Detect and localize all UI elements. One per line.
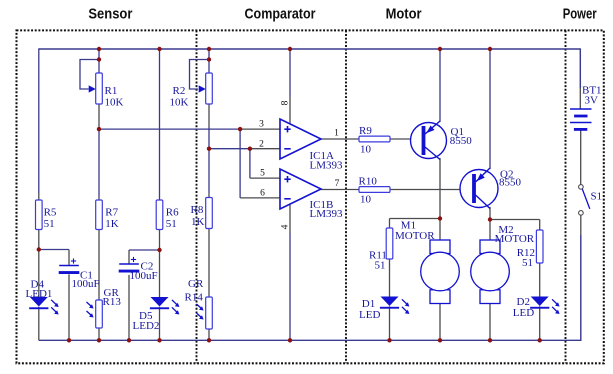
wire pin 7 output to R10 xyxy=(321,189,359,191)
op-amp IC1B LM393 xyxy=(280,169,321,209)
wire node to C1 xyxy=(39,249,69,251)
svg-text:R5: R5 xyxy=(44,207,57,219)
svg-text:R7: R7 xyxy=(105,207,118,219)
junction ground / M1 xyxy=(438,338,442,342)
wire node to D4 xyxy=(38,250,40,298)
svg-text:3V: 3V xyxy=(585,95,599,107)
wire R7 to R13 xyxy=(98,230,100,301)
LED D4 xyxy=(29,297,59,315)
svg-text:LED: LED xyxy=(513,307,534,319)
wire pin 2 stub xyxy=(250,148,280,150)
junction R1 wiper xyxy=(97,57,101,61)
wire C1 to ground rail xyxy=(68,274,70,340)
wire rail to R6 xyxy=(159,48,161,200)
resistor R9 10 xyxy=(359,136,390,142)
wire rail to R2 xyxy=(208,48,210,73)
wire pin 4 stub xyxy=(289,204,291,233)
svg-text:LED1: LED1 xyxy=(26,288,53,300)
capacitor C1 100uF xyxy=(59,258,80,274)
svg-text:R10: R10 xyxy=(359,176,378,188)
svg-text:1K: 1K xyxy=(105,218,119,230)
capacitor C2 100uF xyxy=(119,257,140,273)
LED D2 xyxy=(530,297,560,315)
op-amp IC1A LM393 xyxy=(280,119,321,159)
wire battery to switch xyxy=(580,131,582,185)
svg-text:3: 3 xyxy=(259,120,264,130)
wire D2 to ground rail xyxy=(539,306,541,340)
wire rail to Q1 emitter xyxy=(439,48,441,122)
svg-text:8550: 8550 xyxy=(450,135,473,147)
wire R10 to Q2 base xyxy=(390,189,472,191)
potentiometer R1 10K xyxy=(96,73,103,104)
wire rail to battery xyxy=(579,48,581,88)
wire node to C2 xyxy=(129,249,160,251)
svg-text:LM393: LM393 xyxy=(310,208,344,220)
wire M2 to ground rail xyxy=(489,304,491,341)
svg-text:GR: GR xyxy=(188,278,204,290)
junction ground / C1 xyxy=(67,338,71,342)
wire bottom ground rail xyxy=(39,339,581,341)
junction ground / D2 xyxy=(538,338,542,342)
wire C2 to ground rail xyxy=(128,275,130,340)
wire R2 wiper loop xyxy=(190,60,210,90)
svg-text:LED: LED xyxy=(359,309,380,321)
resistor R7 1K xyxy=(96,200,103,230)
junction ground / R14 xyxy=(207,338,211,342)
wire pin 4 to ground rail xyxy=(289,233,291,340)
resistor R8 1K xyxy=(206,198,213,229)
svg-text:LM393: LM393 xyxy=(310,159,344,171)
svg-text:8: 8 xyxy=(281,100,291,105)
junction R2 wiper xyxy=(207,57,211,61)
motor M2 xyxy=(471,240,510,304)
R2 wiper arrow xyxy=(199,85,206,92)
junction ground / pin4 xyxy=(288,338,292,342)
resistor R5 51 xyxy=(36,200,43,230)
svg-text:10: 10 xyxy=(360,193,372,205)
battery BT1 3V xyxy=(570,109,592,131)
junction R6/C2/D5 node xyxy=(157,248,161,252)
svg-text:51: 51 xyxy=(44,218,55,230)
wire R1 wiper loop xyxy=(80,60,99,90)
svg-text:Comparator: Comparator xyxy=(245,6,316,23)
svg-text:100uF: 100uF xyxy=(130,270,158,282)
resistor R11 51 xyxy=(386,228,393,259)
wire C2 top lead xyxy=(128,250,130,264)
wire Q2 collector node to R12 xyxy=(490,219,540,221)
resistor R12 51 xyxy=(536,230,543,263)
svg-text:1K: 1K xyxy=(191,216,205,228)
R14 light arrows xyxy=(197,304,204,320)
svg-text:Sensor: Sensor xyxy=(88,6,132,23)
wire R6 to node xyxy=(159,230,161,251)
junction ground / D5 xyxy=(157,338,161,342)
svg-text:R8: R8 xyxy=(191,204,204,216)
LED D5 xyxy=(150,297,180,315)
svg-text:6: 6 xyxy=(260,189,265,199)
svg-text:10: 10 xyxy=(360,143,372,155)
junction ground / R13 xyxy=(97,338,101,342)
svg-text:R1: R1 xyxy=(105,85,118,97)
wire Q2 collector down xyxy=(489,207,491,220)
wire pin 5 stub xyxy=(250,177,280,179)
junction top rail / R1 xyxy=(97,47,101,51)
svg-text:100uF: 100uF xyxy=(72,278,100,290)
wire R7 top lead xyxy=(98,196,100,200)
wire R5 to node xyxy=(38,230,40,250)
wire R13 to ground rail xyxy=(98,328,100,340)
wire node to D5 xyxy=(159,250,161,297)
photoresistor R14 GR xyxy=(206,297,213,329)
transistor Q1 8550 xyxy=(411,121,447,160)
wire rail to Q2 emitter xyxy=(489,48,491,169)
wire battery top lead xyxy=(579,88,581,109)
resistor R6 51 xyxy=(156,200,163,230)
wire bottom rail to switch xyxy=(580,235,582,341)
wire pin2 node down to pin5 xyxy=(249,149,251,178)
wire D1 to ground rail xyxy=(389,306,391,340)
wire node to M1 xyxy=(439,219,441,241)
junction ground / C2 xyxy=(127,338,131,342)
svg-text:S1: S1 xyxy=(591,190,603,202)
svg-text:R13: R13 xyxy=(103,296,122,308)
wire R1 bottom lead xyxy=(98,104,100,129)
R13 light arrows xyxy=(87,302,94,318)
R1 wiper arrow xyxy=(89,85,96,92)
wire pin 3 stub xyxy=(240,128,280,130)
junction top rail / R6 xyxy=(157,47,161,51)
wire R12 top lead xyxy=(539,220,541,231)
wire R14 to ground rail xyxy=(208,329,210,340)
svg-text:Motor: Motor xyxy=(386,6,422,23)
svg-text:51: 51 xyxy=(522,257,533,269)
resistor R10 10 xyxy=(359,187,390,193)
wire R12 to D2 xyxy=(539,263,541,297)
svg-text:MOTOR: MOTOR xyxy=(395,230,435,242)
LED D1 xyxy=(380,297,410,315)
wire M1 to ground rail xyxy=(439,304,441,341)
svg-text:1: 1 xyxy=(334,128,339,138)
svg-text:10K: 10K xyxy=(170,97,189,109)
wire R9 to Q1 base xyxy=(390,138,421,140)
junction R5/C1/D4 node xyxy=(37,247,41,251)
wire rail to R1 xyxy=(98,48,100,73)
motor M1 xyxy=(421,240,460,304)
junction pin2 node xyxy=(248,147,252,151)
svg-text:2: 2 xyxy=(259,139,264,149)
wire Q1 collector down xyxy=(439,158,441,219)
junction pin3 node xyxy=(238,127,242,131)
junction R1 bottom node xyxy=(97,127,101,131)
wire switch bottom lead xyxy=(580,215,582,235)
wire D4 to ground rail xyxy=(38,307,40,341)
wire R8 top lead xyxy=(208,193,210,198)
svg-text:R2: R2 xyxy=(173,85,186,97)
wire pin 8 stub xyxy=(289,97,291,124)
wire left rail down xyxy=(38,48,40,193)
transistor Q2 8550 xyxy=(460,168,498,209)
svg-text:R9: R9 xyxy=(359,125,372,137)
svg-text:8550: 8550 xyxy=(499,176,522,188)
wire pin 1 output to R9 xyxy=(321,138,359,140)
photoresistor R13 GR xyxy=(96,300,103,328)
svg-text:4: 4 xyxy=(281,224,291,229)
wire R2 node to pin2 xyxy=(209,148,250,150)
wire pin3 node down to pin6 xyxy=(239,129,241,198)
junction Q2 collector node xyxy=(488,217,492,221)
svg-text:10K: 10K xyxy=(105,97,124,109)
wire R5 top lead xyxy=(38,193,40,200)
svg-text:R6: R6 xyxy=(166,207,179,219)
wire C1 top lead xyxy=(68,250,70,266)
potentiometer R2 10K xyxy=(206,73,213,104)
junction top rail / R2 xyxy=(207,47,211,51)
switch S1 xyxy=(579,185,590,216)
wire R1 node down to R7 xyxy=(98,129,100,196)
wire R11 top lead xyxy=(389,219,391,229)
wire top power rail xyxy=(39,48,581,50)
wire node to M2 xyxy=(489,220,491,241)
junction Q1 collector node xyxy=(438,216,442,220)
svg-text:7: 7 xyxy=(335,179,340,189)
junction top rail / pin8 xyxy=(288,47,292,51)
junction top rail / Q1 emitter xyxy=(438,47,442,51)
svg-text:MOTOR: MOTOR xyxy=(495,233,535,245)
svg-text:LED2: LED2 xyxy=(133,320,160,332)
wire R8 to R14 xyxy=(208,229,210,298)
svg-text:5: 5 xyxy=(260,169,265,179)
junction R2 bottom node xyxy=(207,147,211,151)
wire R11 to D1 xyxy=(389,259,391,297)
wire R2 bottom lead xyxy=(208,104,210,127)
junction ground / M2 xyxy=(488,338,492,342)
svg-text:Power: Power xyxy=(563,6,597,23)
svg-text:R14: R14 xyxy=(185,292,204,304)
junction top rail / Q2 emitter xyxy=(488,47,492,51)
svg-text:51: 51 xyxy=(375,259,386,271)
junction ground / D1 xyxy=(387,338,391,342)
wire Q1 collector node to R11 xyxy=(390,218,441,220)
wire pin 8 to rail xyxy=(289,48,291,97)
wire pin 6 stub xyxy=(240,197,280,199)
wire R2 node down to R8 xyxy=(208,127,210,193)
wire R1 node to pin3 xyxy=(99,128,240,130)
wire D5 to ground rail xyxy=(159,307,161,341)
svg-text:51: 51 xyxy=(166,218,177,230)
